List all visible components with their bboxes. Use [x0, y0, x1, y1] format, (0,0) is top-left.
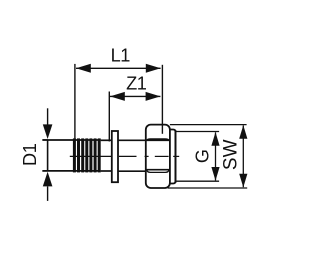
- dimension Z1: [109, 92, 160, 142]
- centerline: [70, 155, 179, 157]
- svg-text:Z1: Z1: [126, 74, 147, 94]
- nut hex face line lower: [146, 169, 170, 171]
- nut hex face line upper: [146, 139, 170, 141]
- spigot body bottom edge: [42, 170, 100, 172]
- end face line: [175, 130, 177, 183]
- flange collar: [112, 131, 118, 182]
- nut nose cylinder: [170, 130, 176, 184]
- svg-text:SW: SW: [221, 139, 242, 170]
- svg-text:G: G: [193, 149, 213, 163]
- dimension G: [176, 132, 220, 182]
- spigot body top edge: [42, 139, 100, 141]
- union nut hex outline: [146, 125, 170, 188]
- spigot left end face: [47, 140, 49, 171]
- dimension L1: [75, 64, 162, 141]
- dimension D1: [42, 108, 52, 201]
- nut chamfer line lower: [146, 170, 169, 173]
- svg-text:L1: L1: [111, 46, 131, 66]
- nut chamfer line upper: [146, 139, 169, 141]
- tube section between flange and nut: [118, 139, 146, 141]
- ribbed press zone: [74, 138, 99, 172]
- dimension SW: [168, 125, 248, 188]
- svg-text:D1: D1: [20, 143, 40, 166]
- tube section between ribs and flange: [101, 139, 112, 141]
